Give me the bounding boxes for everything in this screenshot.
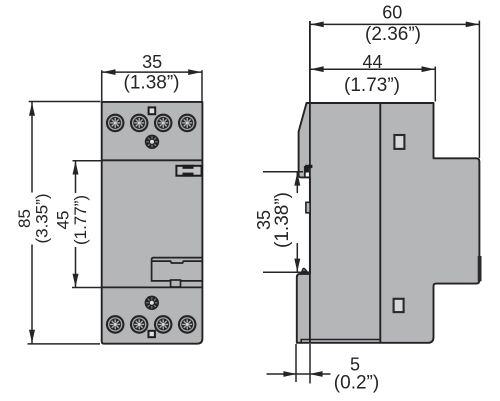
claw right wall [304,166,306,177]
light sliver under hook [306,173,309,177]
dim 44 line + arrows [310,68,435,70]
terminal screw B4 [178,315,197,334]
bottom inner step line [301,340,380,344]
slot cover tab [171,280,181,287]
bottom small square window [149,331,155,337]
svg-text:(2.36”): (2.36”) [365,24,421,45]
DIN clip latch (front view, right) [176,165,201,177]
svg-text:(1.38”): (1.38”) [124,72,180,93]
lower square window (side) [394,299,404,312]
terminal screw T1 [106,114,125,133]
terminal screw T2 [130,114,149,133]
dim 5 line + outside arrows [267,373,297,375]
terminal screw B2 [130,315,149,334]
svg-text:60: 60 [382,3,402,23]
lower claw tip [302,268,307,271]
top small square window [149,107,156,114]
rail hook (black) [305,165,312,173]
side bump on front edge [306,202,310,213]
divider line lower [102,286,203,288]
front face vertical edge + 60/44 extension line [309,21,311,343]
terminal screw T4 [178,114,197,133]
svg-text:5: 5 [350,354,360,374]
dim 60 top : right extension line [478,21,480,158]
svg-text:(1.73”): (1.73”) [344,75,400,96]
dim 35 side view : extension lines [263,171,303,173]
dim 85 left : extension lines [29,101,101,103]
terminal screw B3 [154,315,173,334]
terminal screw T3 [154,114,173,133]
dim 45 label (rotated) [54,193,91,247]
svg-text:(1.38”): (1.38”) [272,192,293,248]
dim 35 top-left : extension lines [101,70,103,101]
upper square window (side) [394,135,404,149]
dim 35 line + arrows [102,71,202,73]
dim 85 line + arrows [31,102,33,344]
right edge hinge tick [478,256,482,281]
svg-text:45: 45 [54,211,73,230]
inner vertical separation line [379,103,381,343]
dim 45 line + arrows [75,161,77,287]
svg-text:35: 35 [254,210,274,230]
dim 35 side label (rotated) [254,192,293,248]
front view body [102,102,203,344]
dim 35 side line + arrows [296,172,298,193]
dim 60 line + arrows [310,23,480,25]
svg-text:35: 35 [142,52,162,72]
svg-text:(0.2”): (0.2”) [334,373,379,394]
svg-text:(3.35”): (3.35”) [33,193,52,243]
top center screw [145,135,159,149]
svg-text:85: 85 [15,209,34,228]
dim 45 left : extension lines [73,160,102,162]
dim 5 bottom : extension lines [295,344,297,382]
bottom center screw [145,296,159,310]
dim 85 label (rotated) [15,193,52,245]
svg-text:44: 44 [362,52,382,72]
svg-text:(1.77”): (1.77”) [71,195,90,245]
side view body silhouette [297,103,480,343]
terminal screw B1 [106,315,125,334]
divider line upper [102,159,203,161]
dim 44 : right extension line [434,67,436,102]
auxiliary slot cover (front view, lower right) [152,258,202,281]
